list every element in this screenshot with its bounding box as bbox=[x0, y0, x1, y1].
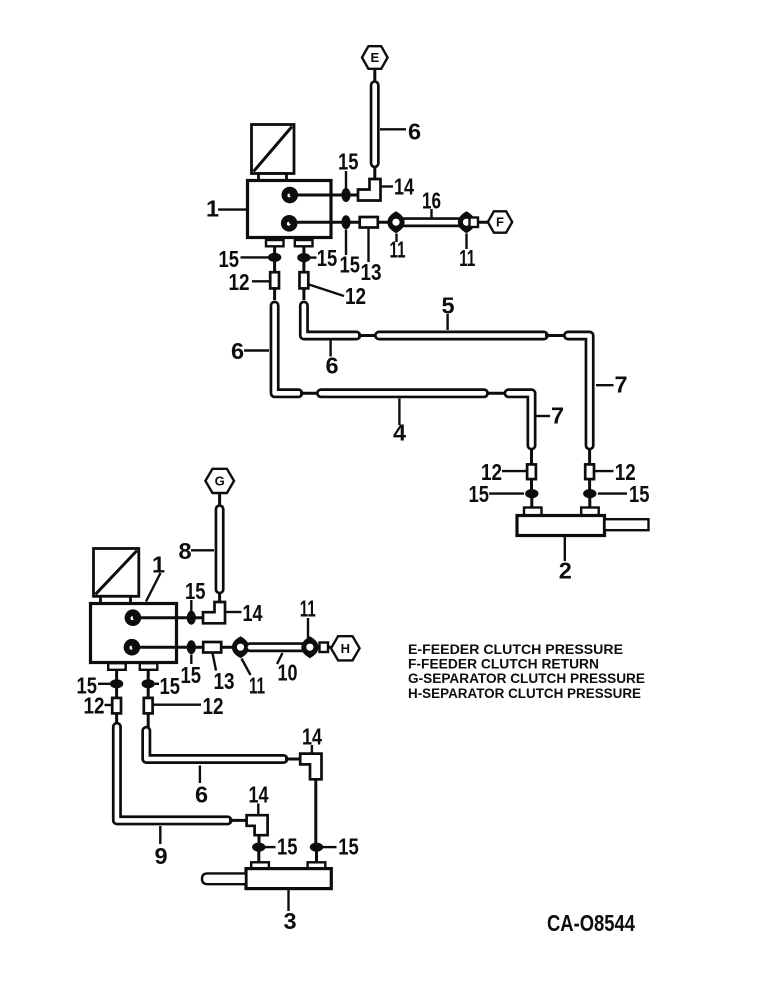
port circle lower bbox=[124, 639, 141, 656]
port circle lower bbox=[281, 215, 298, 232]
svg-text:11: 11 bbox=[300, 595, 316, 621]
svg-text:15: 15 bbox=[185, 578, 206, 604]
label 15 leader right bbox=[598, 492, 627, 494]
label 15 leader left bbox=[241, 256, 269, 258]
wire dot to tab right bbox=[315, 850, 318, 863]
elbow 14 (right, down) bbox=[300, 754, 321, 780]
svg-text:12: 12 bbox=[229, 269, 250, 295]
label 14 leader bbox=[257, 804, 259, 815]
svg-text:6: 6 bbox=[195, 782, 208, 808]
fitting 15 dot (lower line) bbox=[187, 640, 196, 654]
label 9 leader bbox=[159, 826, 161, 844]
svg-text:11: 11 bbox=[390, 237, 406, 263]
hose 6 lower (L-shape) bbox=[146, 731, 283, 759]
wire right port down bbox=[302, 246, 305, 272]
label 15 leader bbox=[190, 600, 192, 612]
label 4 leader bbox=[398, 399, 400, 426]
fitting 15 dot right bbox=[142, 679, 155, 688]
cylinder 2 body bbox=[517, 516, 605, 536]
label 15 leader left bbox=[265, 846, 276, 848]
hose 6 (vertical) bbox=[370, 85, 380, 163]
label 14 leader bbox=[226, 611, 242, 613]
svg-text:13: 13 bbox=[214, 668, 235, 694]
port tab left (block bottom) bbox=[266, 240, 284, 246]
fitting 13 (upper) bbox=[360, 217, 378, 228]
wire hose6R to hose5 bbox=[358, 334, 377, 337]
svg-text:14: 14 bbox=[394, 173, 414, 199]
svg-text:3: 3 bbox=[284, 908, 297, 934]
svg-text:15: 15 bbox=[338, 834, 359, 860]
svg-text:9: 9 bbox=[155, 843, 168, 869]
svg-text:5: 5 bbox=[442, 293, 455, 319]
elbow 14 (mid, down) bbox=[247, 815, 268, 835]
wire port2 to hex F bbox=[289, 221, 487, 224]
hose 4 bbox=[321, 388, 484, 398]
hose 5 bbox=[379, 331, 544, 341]
valve block 1 (lower) solenoid bbox=[94, 549, 139, 604]
svg-text:15: 15 bbox=[181, 662, 202, 688]
wire 12 to hose 6 bbox=[147, 713, 150, 728]
label 2 leader bbox=[564, 536, 566, 561]
wire port to elbow 14 bbox=[290, 194, 359, 197]
fitting 15 dot (upper line) bbox=[187, 611, 196, 625]
svg-text:15: 15 bbox=[340, 252, 361, 278]
label 11 leader bbox=[242, 659, 251, 676]
label 12 leader left bbox=[252, 280, 270, 282]
port tab left (lower block bottom) bbox=[108, 663, 126, 670]
wire 12 to hose 9 bbox=[115, 713, 118, 726]
hose 10 bbox=[250, 642, 307, 652]
port circle upper bbox=[282, 187, 299, 204]
wire port2 to hex H bbox=[132, 646, 331, 649]
wire hose6L to hose4 bbox=[300, 392, 319, 395]
fitting 13 (lower) bbox=[203, 642, 221, 653]
fitting 12 cyl2 right bbox=[585, 464, 594, 479]
svg-text:15: 15 bbox=[277, 834, 298, 860]
svg-text:8: 8 bbox=[179, 538, 192, 564]
cyl2 tab right bbox=[581, 508, 599, 516]
label 7 leader bbox=[537, 415, 551, 417]
cyl3 tab left bbox=[251, 862, 269, 869]
cylinder 2 rod bbox=[605, 519, 649, 530]
svg-text:7: 7 bbox=[615, 371, 628, 397]
wire hose4 to hose7L bbox=[486, 392, 506, 395]
fitting 15 dot left bbox=[268, 253, 281, 262]
wire hexE to hose 6 bbox=[373, 69, 376, 81]
hose 9 (L-shape) bbox=[117, 727, 228, 821]
wire elbow down to dot bbox=[314, 779, 317, 844]
wire right port down bbox=[147, 670, 150, 698]
wire left port down bbox=[115, 670, 118, 698]
fitting 11 (right lower) bbox=[301, 636, 318, 658]
label 15 leader left bbox=[489, 492, 524, 494]
label 8 leader bbox=[191, 549, 214, 551]
svg-text:10: 10 bbox=[278, 659, 298, 685]
wire hose6 to elbow 14 right bbox=[285, 758, 301, 761]
fitting 11 (right) bbox=[458, 211, 475, 233]
label 15 leader right bbox=[155, 683, 159, 685]
fitting 12 left bbox=[270, 272, 279, 288]
svg-text:E: E bbox=[370, 50, 379, 65]
svg-text:12: 12 bbox=[84, 693, 105, 719]
svg-text:6: 6 bbox=[231, 338, 244, 364]
fitting 11 (left) bbox=[387, 211, 404, 233]
wire hose9 to elbow 14 mid bbox=[229, 819, 248, 822]
hex G bbox=[205, 469, 234, 493]
fitting 15 dot right bbox=[297, 253, 310, 262]
label 12 leader right (diagonal) bbox=[309, 285, 344, 297]
hex H bbox=[331, 636, 360, 660]
svg-text:15: 15 bbox=[629, 481, 650, 507]
wire elbow to dot bbox=[258, 835, 261, 844]
svg-text:16: 16 bbox=[422, 187, 441, 213]
valve block 1 (lower) body bbox=[91, 604, 177, 663]
wire hose7R to 12 bbox=[588, 448, 591, 465]
svg-text:E-FEEDER CLUTCH PRESSURE: E-FEEDER CLUTCH PRESSURE bbox=[408, 642, 623, 657]
svg-text:F-FEEDER CLUTCH RETURN: F-FEEDER CLUTCH RETURN bbox=[408, 657, 599, 672]
label 5 leader bbox=[446, 314, 448, 330]
svg-text:1: 1 bbox=[206, 196, 219, 222]
label 6 leader bbox=[199, 766, 201, 784]
label 11 leader bbox=[395, 234, 397, 243]
fitting 15 dot cyl3 left bbox=[252, 843, 265, 852]
label 12 leader right bbox=[595, 470, 614, 472]
svg-text:G: G bbox=[215, 473, 225, 488]
svg-text:15: 15 bbox=[160, 673, 181, 699]
wire 12 to hose left bbox=[273, 288, 276, 300]
svg-text:6: 6 bbox=[408, 119, 421, 145]
label 1 leader (diagonal) bbox=[146, 573, 161, 602]
svg-text:11: 11 bbox=[459, 245, 475, 271]
label 15 leader right bbox=[322, 846, 337, 848]
hose 6 right (L-shape down) bbox=[304, 306, 357, 336]
svg-text:F: F bbox=[496, 214, 504, 229]
port circle upper bbox=[125, 609, 142, 626]
label 6 leader bbox=[329, 339, 331, 357]
hex E bbox=[362, 46, 388, 69]
svg-text:15: 15 bbox=[469, 481, 490, 507]
label 6 leader bbox=[244, 349, 269, 351]
port tab right (lower block bottom) bbox=[140, 663, 158, 670]
fitting 12 cyl2 left bbox=[527, 464, 536, 479]
cylinder 3 rod bbox=[202, 873, 246, 884]
label 15 leader bbox=[190, 655, 192, 665]
label 14 leader bbox=[311, 745, 313, 753]
cyl2 tab left bbox=[524, 508, 542, 516]
fitting 15 dot cyl3 right bbox=[310, 843, 323, 852]
label 15 leader (above) bbox=[345, 171, 347, 189]
svg-text:H-SEPARATOR CLUTCH PRESSURE: H-SEPARATOR CLUTCH PRESSURE bbox=[408, 686, 641, 701]
label 12 leader right (long) bbox=[153, 704, 201, 706]
svg-text:12: 12 bbox=[345, 283, 366, 309]
svg-text:1: 1 bbox=[152, 551, 165, 577]
hex F bbox=[488, 211, 512, 232]
label 16 leader bbox=[430, 209, 432, 218]
svg-text:14: 14 bbox=[249, 782, 269, 808]
wire hose7L to 12 bbox=[530, 448, 533, 465]
hose 6 left (L-shape down) bbox=[275, 306, 299, 394]
hose 7 left (L-shape) bbox=[509, 393, 532, 445]
label 11 leader bbox=[307, 618, 309, 638]
fitting 12 right (lower) bbox=[144, 698, 153, 714]
svg-text:15: 15 bbox=[317, 245, 338, 271]
wire hose5 to hose7R bbox=[545, 334, 566, 337]
svg-text:14: 14 bbox=[243, 600, 263, 626]
wire 12 to hose right bbox=[302, 288, 305, 300]
svg-text:15: 15 bbox=[338, 148, 359, 174]
elbow 14 (lower block) bbox=[203, 602, 225, 623]
fitting 15 dot upper line bbox=[341, 188, 350, 202]
label 15 leader (below) bbox=[345, 230, 347, 256]
label 15 leader left bbox=[98, 683, 110, 685]
wire hose8 to elbow bbox=[218, 592, 221, 605]
hose 16 bbox=[402, 217, 465, 227]
svg-text:4: 4 bbox=[393, 419, 406, 445]
fitting 15 dot cyl2 right bbox=[583, 489, 596, 498]
fitting 12 right bbox=[300, 272, 309, 288]
fitting square near F bbox=[470, 218, 479, 228]
wire 12 to dot right bbox=[588, 479, 591, 498]
wire port to elbow 14 (lower) bbox=[133, 616, 204, 619]
fitting 15 dot cyl2 left bbox=[525, 489, 538, 498]
fitting 11 (left lower) bbox=[232, 636, 249, 658]
valve block 1 (upper) body bbox=[248, 181, 332, 238]
label 7 leader bbox=[596, 384, 614, 386]
wire dot to tab left bbox=[257, 850, 260, 863]
wire hose6 to elbow bbox=[373, 166, 376, 182]
label 1 leader bbox=[218, 208, 247, 210]
svg-text:11: 11 bbox=[249, 673, 265, 699]
hose 8 (vertical) bbox=[215, 509, 225, 589]
label 10 leader bbox=[277, 653, 283, 664]
hose 7 right (L-shape) bbox=[568, 336, 590, 446]
label 15 leader right bbox=[310, 256, 316, 258]
svg-text:14: 14 bbox=[302, 723, 322, 749]
fitting 12 left (lower) bbox=[112, 698, 121, 714]
wire dot to tab right bbox=[588, 497, 591, 508]
svg-text:H: H bbox=[341, 641, 350, 656]
svg-text:CA-O8544: CA-O8544 bbox=[547, 910, 635, 936]
label 12 leader left bbox=[105, 704, 112, 706]
svg-text:13: 13 bbox=[361, 259, 382, 285]
cyl3 tab right bbox=[308, 862, 326, 869]
fitting 15 dot left bbox=[110, 679, 123, 688]
label 3 leader bbox=[287, 889, 289, 911]
label 6 leader bbox=[380, 128, 406, 130]
svg-text:7: 7 bbox=[551, 402, 564, 428]
label 12 leader left bbox=[502, 470, 527, 472]
elbow 14 (upper) bbox=[358, 179, 381, 201]
label 13 leader bbox=[367, 228, 369, 262]
svg-text:2: 2 bbox=[559, 558, 572, 584]
cylinder 3 body bbox=[246, 869, 331, 889]
svg-text:G-SEPARATOR CLUTCH PRESSURE: G-SEPARATOR CLUTCH PRESSURE bbox=[408, 671, 645, 686]
label 11 leader bbox=[465, 234, 467, 250]
wire left port down bbox=[273, 246, 276, 272]
svg-text:6: 6 bbox=[326, 352, 339, 378]
wire 12 to dot left bbox=[530, 479, 533, 498]
port tab right (block bottom) bbox=[295, 240, 313, 246]
fitting square near H bbox=[320, 643, 329, 653]
wire dot to tab left bbox=[530, 497, 533, 508]
valve block 1 (upper) solenoid bbox=[252, 125, 295, 181]
wire hexG to hose 8 bbox=[218, 493, 221, 506]
label 14 leader bbox=[382, 185, 394, 187]
svg-text:12: 12 bbox=[203, 693, 224, 719]
fitting 15 dot lower line bbox=[341, 215, 350, 229]
label 13 leader bbox=[213, 653, 217, 671]
